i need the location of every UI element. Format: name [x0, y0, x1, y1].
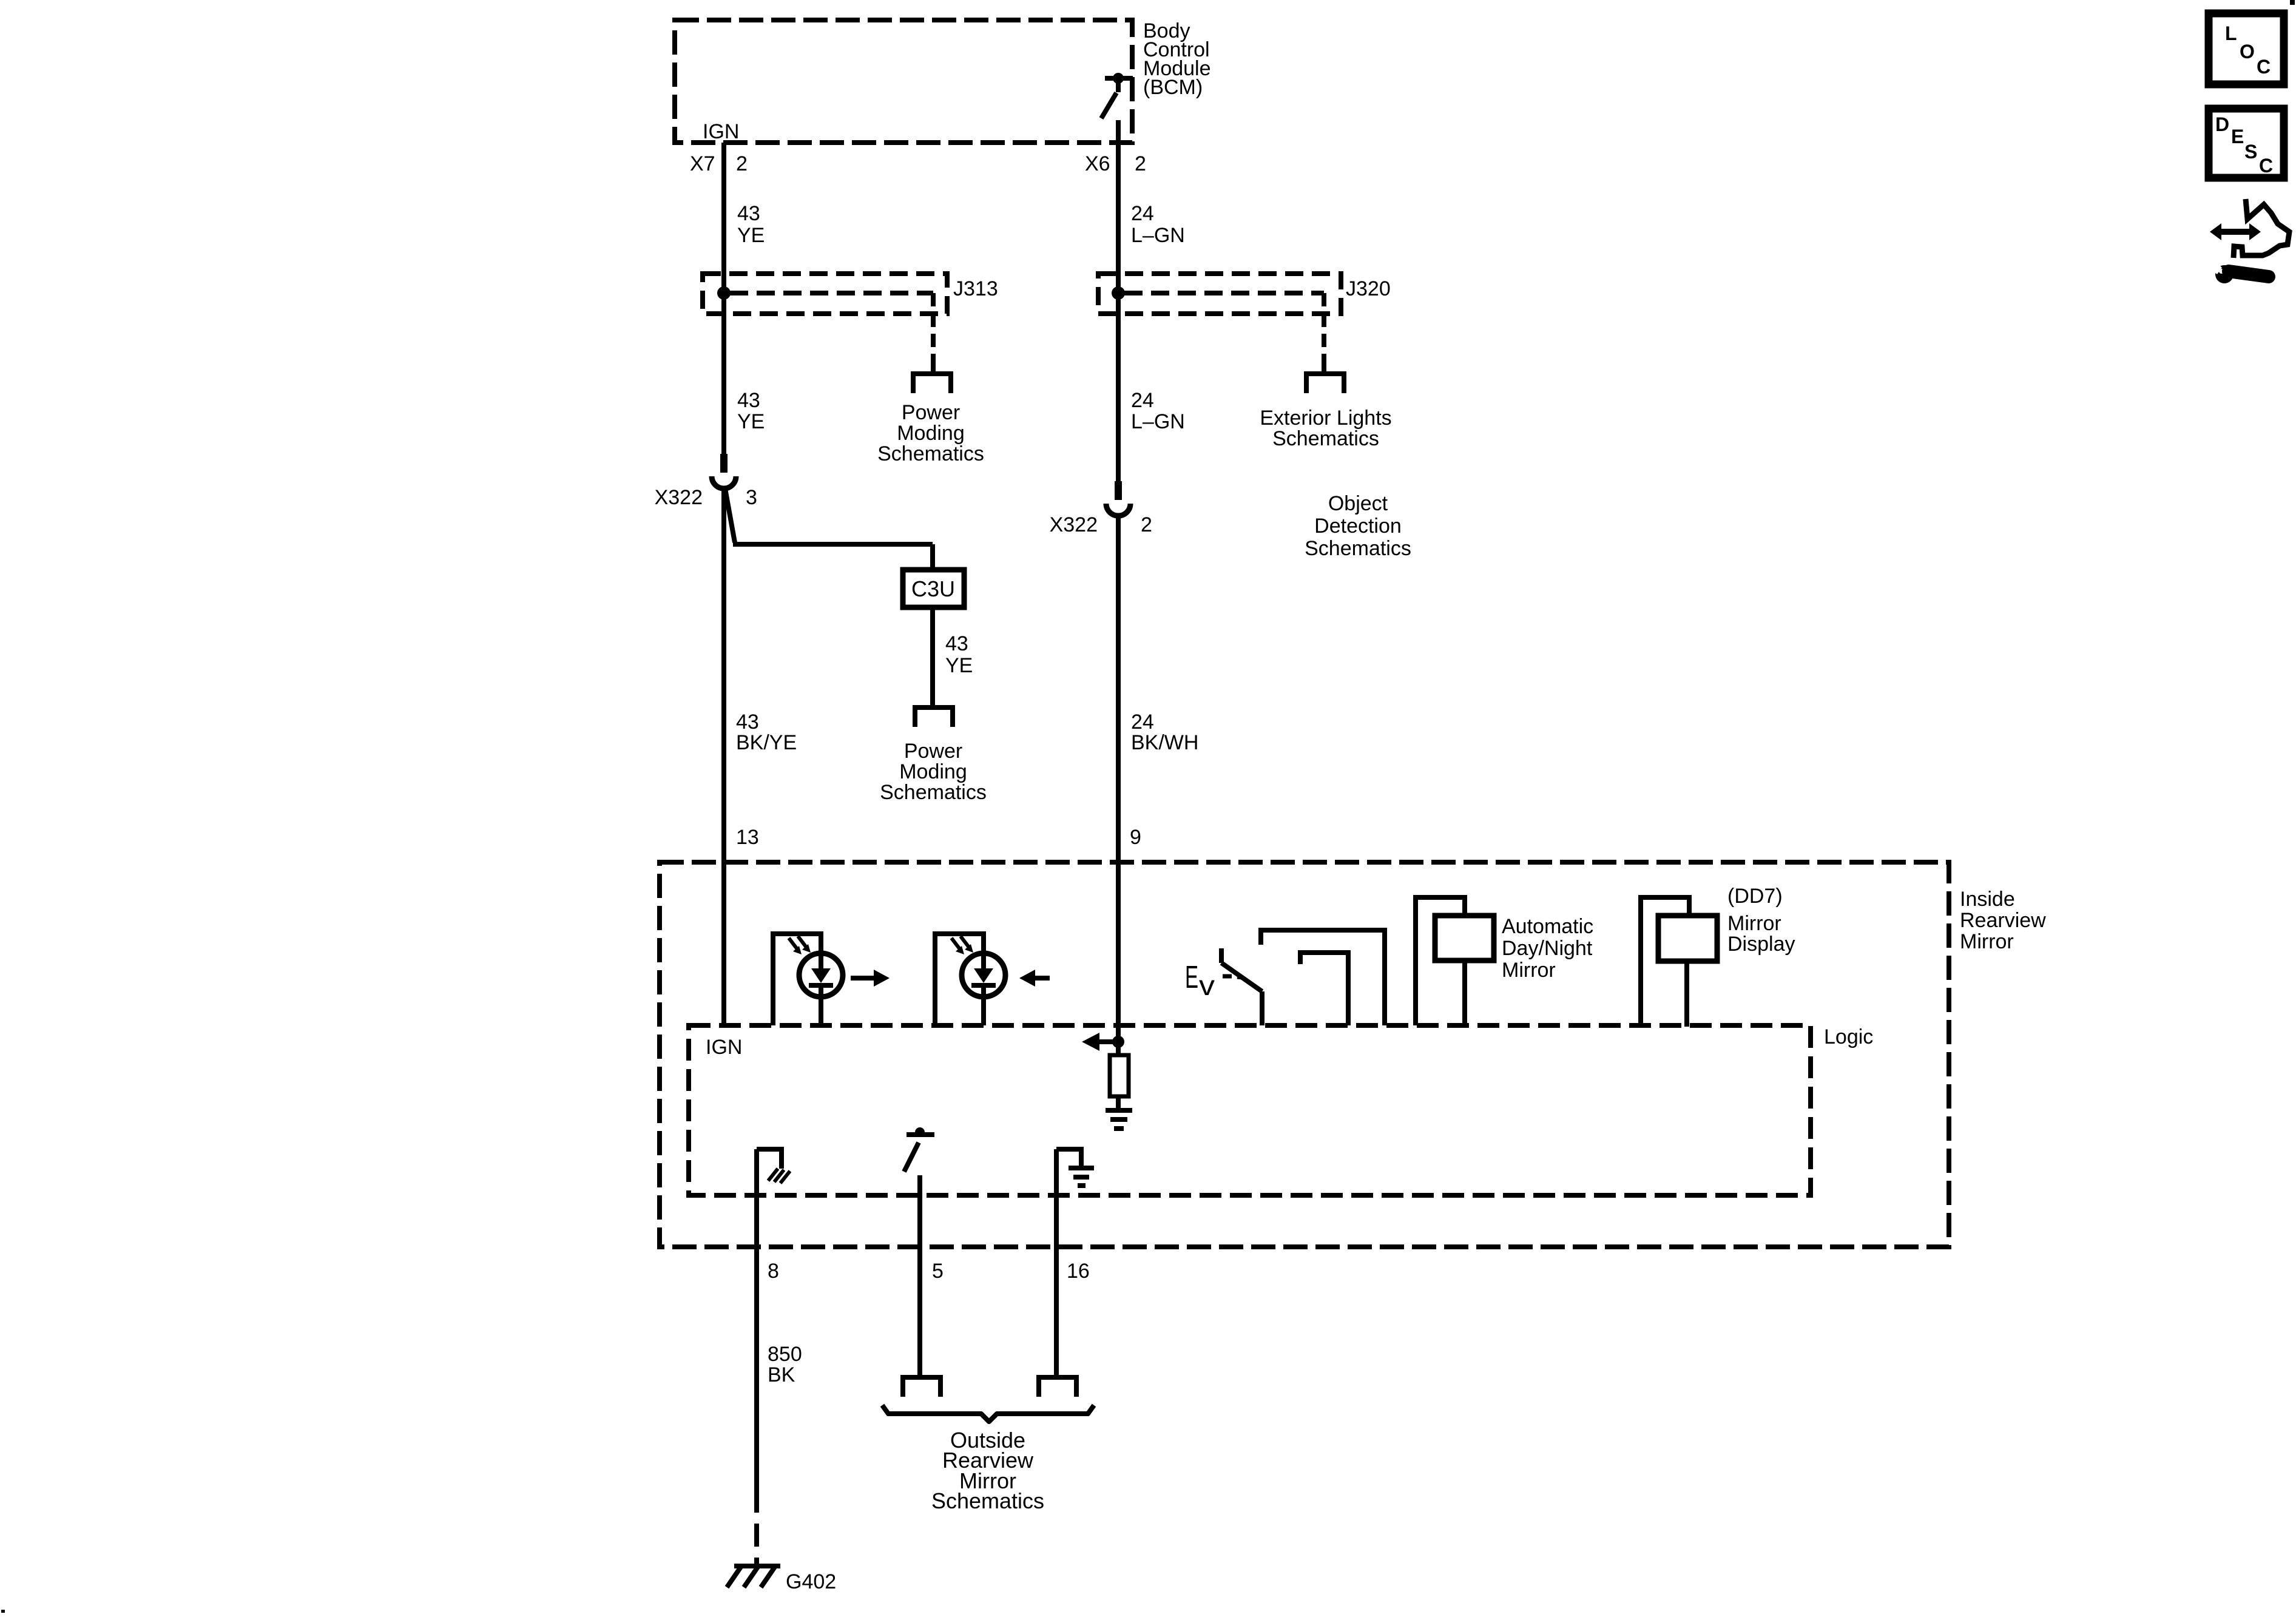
svg-text:D: D	[2215, 113, 2229, 135]
svg-text:v: v	[1199, 970, 1215, 1001]
label: Outside Rearview Mirror Schematics	[931, 1428, 1044, 1513]
Logic inner dashed box	[689, 1025, 1811, 1195]
svg-text:G402: G402	[786, 1570, 836, 1593]
wire: horizontal branch to C3U	[733, 542, 933, 547]
svg-text:BK: BK	[768, 1363, 795, 1386]
svg-text:X7: X7	[690, 152, 715, 175]
DESC hotlink box	[2209, 109, 2284, 178]
svg-text:2: 2	[1135, 152, 1146, 175]
label: Body Control Module (BCM)	[1143, 19, 1211, 99]
wire pin 8: ground loop inside Logic	[757, 1149, 782, 1169]
svg-text:J320: J320	[1346, 277, 1391, 300]
ground G402 symbol	[727, 1566, 780, 1587]
bracket element (small) inside mirror	[1300, 953, 1348, 1025]
svg-text:Power: Power	[902, 401, 960, 424]
brace (Outside Rearview Mirror Schematics)	[882, 1405, 1094, 1422]
earth ground symbol (pin 16 loop)	[1069, 1166, 1094, 1188]
wire pin 16: ground loop inside Logic	[1056, 1149, 1081, 1166]
svg-text:2: 2	[1141, 513, 1152, 536]
svg-text:Exterior Lights: Exterior Lights	[1260, 407, 1391, 430]
wire: below C3U down to off-page symbol	[930, 607, 935, 707]
label: (DD7) Mirror Display	[1727, 885, 1795, 956]
svg-text:BK/WH: BK/WH	[1131, 731, 1198, 754]
PD1 output arrow (right)	[851, 970, 890, 987]
LOC hotlink box	[2209, 13, 2284, 84]
svg-text:Power: Power	[904, 740, 962, 763]
wire: node to resistor	[1116, 1042, 1121, 1055]
Ev photocell switch lever	[1221, 948, 1262, 1025]
splice pack J313 dashed box	[703, 274, 947, 314]
Automatic Day/Night Mirror element frame	[1416, 897, 1465, 1025]
svg-text:X322: X322	[655, 486, 703, 509]
svg-text:J313: J313	[953, 277, 998, 300]
wire: BCM X6-2 output down to splice J320	[1116, 120, 1121, 293]
svg-text:(BCM): (BCM)	[1143, 76, 1203, 99]
photodiode PD1 anode wire to Logic box	[819, 988, 823, 1025]
bracket element (large) inside mirror	[1261, 930, 1385, 1025]
wire: splice J320 down to connector X322 pin 2	[1116, 293, 1121, 481]
Mirror Display box	[1658, 916, 1717, 961]
photodiode PD1 bracket	[773, 934, 821, 1025]
svg-text:E: E	[2231, 126, 2244, 147]
photodiode PD2 incident light arrows	[951, 936, 973, 954]
photodiode PD1 incident light arrows	[789, 936, 811, 954]
junction node on wire 9 inside Logic	[1112, 1036, 1124, 1048]
connector X322 pin 2 (male pin + female cup)	[1106, 481, 1130, 516]
svg-text:L: L	[2225, 22, 2237, 44]
svg-text:43: 43	[737, 202, 760, 225]
service icon: wrench	[2209, 262, 2269, 283]
artifact dot top-right	[2290, 0, 2295, 5]
svg-text:X322: X322	[1050, 513, 1098, 536]
connector X322 pin 3 (male pin + female cup)	[712, 454, 736, 488]
svg-text:9: 9	[1130, 826, 1141, 849]
svg-text:43: 43	[736, 711, 759, 734]
wire: BCM IGN output X7-2 down to splice J313	[721, 143, 726, 293]
svg-text:24: 24	[1131, 202, 1154, 225]
svg-text:L–GN: L–GN	[1131, 224, 1185, 247]
svg-text:S: S	[2244, 141, 2257, 163]
svg-text:Schematics: Schematics	[877, 442, 984, 465]
wire pin 8 down out of mirror	[754, 1149, 759, 1490]
svg-text:Detection: Detection	[1314, 515, 1402, 538]
svg-text:L–GN: L–GN	[1131, 410, 1185, 433]
photodiode PD2 circle	[962, 953, 1005, 997]
Body Control Module (BCM) dashed box	[675, 20, 1132, 143]
splice pack J320 dashed box	[1098, 274, 1341, 314]
label: Inside Rearview Mirror	[1960, 888, 2046, 953]
svg-text:Moding: Moding	[897, 422, 965, 445]
svg-text:850: 850	[768, 1343, 802, 1366]
svg-text:3: 3	[746, 486, 757, 509]
svg-text:24: 24	[1131, 711, 1154, 734]
svg-text:Display: Display	[1727, 933, 1795, 956]
svg-text:Inside: Inside	[1960, 888, 2015, 911]
svg-text:Rearview: Rearview	[1960, 909, 2046, 932]
chassis ground hatch (pin 8 loop)	[768, 1169, 790, 1183]
wire below Mirror Display box	[1684, 961, 1689, 1027]
svg-text:C: C	[2259, 155, 2273, 177]
wire pin 8 dashed to G402	[754, 1490, 759, 1564]
svg-text:Logic: Logic	[1824, 1025, 1873, 1048]
wire pin 16 down to off-page symbol	[1054, 1149, 1059, 1377]
svg-text:BK/YE: BK/YE	[736, 731, 797, 754]
junction node on J313	[717, 286, 731, 300]
off-page connector symbol (Power Moding)	[911, 363, 953, 393]
label: Exterior Lights Schematics	[1260, 407, 1391, 450]
junction node on J320	[1112, 286, 1125, 300]
svg-text:13: 13	[736, 826, 759, 849]
wire: X322-2 down into Inside Rearview Mirror pin 9	[1116, 515, 1121, 1042]
PD2 input arrow (left, toward circle)	[1019, 970, 1050, 987]
fuse C3U box	[903, 570, 964, 607]
svg-text:Schematics: Schematics	[931, 1488, 1044, 1513]
Mirror Display element frame	[1641, 897, 1689, 1027]
wire: resistor to ground	[1116, 1096, 1121, 1109]
wire: angled branch from X322-3 to C3U	[725, 488, 735, 542]
label: Object Detection Schematics	[1305, 492, 1411, 560]
switch inside BCM (low beam output driver)	[1101, 73, 1133, 118]
svg-text:Schematics: Schematics	[880, 781, 987, 804]
off-page connector symbol (Exterior Lights)	[1304, 363, 1346, 393]
artifact dot bottom-left	[1, 1610, 5, 1613]
resistor R (pull-down)	[1110, 1055, 1129, 1096]
svg-text:Schematics: Schematics	[1272, 427, 1379, 450]
svg-text:8: 8	[768, 1260, 779, 1283]
mirror fold switch on wire pin 5	[904, 1127, 934, 1172]
svg-text:2: 2	[736, 152, 748, 175]
svg-text:Moding: Moding	[899, 760, 967, 783]
photodiode PD2 bracket	[935, 934, 984, 1025]
wire: X322-3 down into Inside Rearview Mirror pin 13	[721, 488, 726, 1025]
off-page connector symbol (Power Moding 2)	[913, 707, 955, 727]
label: Automatic Day/Night Mirror	[1502, 915, 1593, 982]
svg-text:Schematics: Schematics	[1305, 537, 1411, 560]
wire: splice J313 down to connector X322 pin 3	[721, 293, 726, 454]
photodiode PD2 anode wire to Logic box	[981, 988, 986, 1025]
svg-text:YE: YE	[737, 224, 765, 247]
svg-text:E: E	[1185, 960, 1198, 995]
svg-text:X6: X6	[1085, 152, 1110, 175]
svg-text:C3U: C3U	[911, 576, 955, 601]
svg-text:43: 43	[737, 389, 760, 412]
off-page connector symbol (wire 16)	[1036, 1377, 1079, 1397]
svg-text:5: 5	[932, 1260, 944, 1283]
ground symbol (logic internal)	[1106, 1108, 1132, 1131]
svg-text:IGN: IGN	[706, 1036, 742, 1059]
svg-text:IGN: IGN	[703, 120, 739, 143]
Automatic Day/Night Mirror box	[1435, 916, 1494, 960]
svg-text:C: C	[2257, 56, 2271, 78]
service icon: outline shape	[2234, 199, 2289, 258]
svg-text:Mirror: Mirror	[1502, 959, 1556, 982]
photodiode PD1 circle	[799, 953, 843, 997]
svg-text:YE: YE	[737, 410, 765, 433]
svg-text:Object: Object	[1328, 492, 1388, 515]
label: Power Moding Schematics (1)	[877, 401, 984, 465]
svg-text:Day/Night: Day/Night	[1502, 937, 1593, 960]
wire pin 5 down to off-page symbol	[917, 1175, 922, 1377]
svg-text:24: 24	[1131, 389, 1154, 412]
svg-text:Mirror: Mirror	[1727, 912, 1781, 935]
wire: down into C3U box	[930, 544, 935, 570]
photodiode PD1 LED triangle and cathode bar	[819, 953, 823, 970]
svg-text:O: O	[2240, 41, 2255, 62]
svg-text:YE: YE	[945, 654, 973, 677]
svg-text:Mirror: Mirror	[1960, 930, 2014, 953]
photodiode PD2 LED triangle and cathode bar	[981, 953, 986, 970]
arrow pointing left from node	[1082, 1033, 1118, 1051]
svg-text:(DD7): (DD7)	[1727, 885, 1783, 908]
off-page connector symbol (wire 5)	[900, 1377, 943, 1397]
svg-text:16: 16	[1067, 1260, 1090, 1283]
svg-text:43: 43	[945, 632, 968, 655]
dashed stub from J313 to off-page symbol	[931, 314, 936, 364]
dashed stub from J320 to off-page symbol	[1322, 314, 1326, 364]
label: Power Moding Schematics (2)	[880, 740, 987, 804]
wire below Automatic Day/Night Mirror box	[1462, 960, 1467, 1025]
Inside Rearview Mirror outer dashed box	[660, 862, 1949, 1247]
svg-text:Automatic: Automatic	[1502, 915, 1593, 938]
service icon: double arrow	[2210, 223, 2261, 240]
